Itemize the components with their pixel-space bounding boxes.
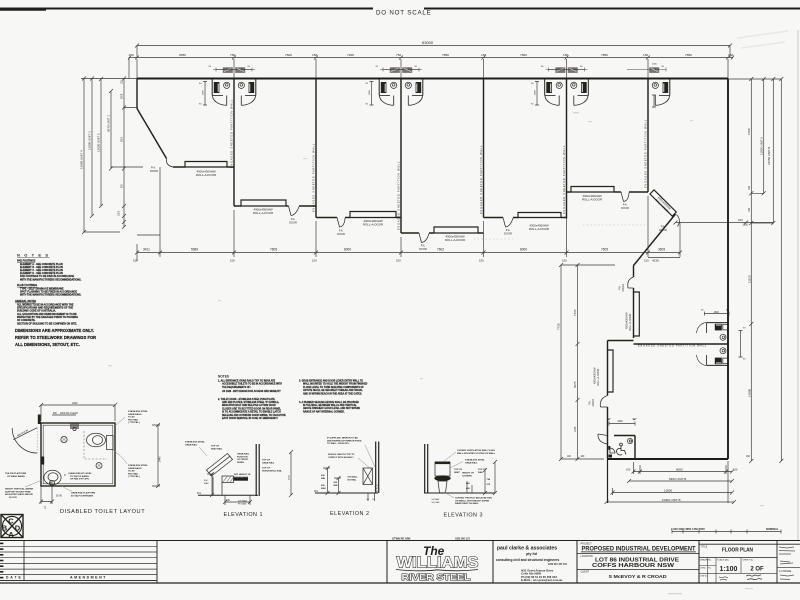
svg-text:DOOR: DOOR — [289, 221, 297, 225]
svg-text:TO RIM OF BASIN: TO RIM OF BASIN — [70, 475, 89, 478]
right wall — [727, 79, 729, 460]
door leaf + swing — [13, 428, 37, 440]
pedestal — [438, 481, 447, 493]
tilted seat — [207, 454, 233, 477]
svg-text:RAISE SEAT ON WALL: RAISE SEAT ON WALL — [455, 502, 479, 505]
svg-text:RANGE OF ANY INTERNAL CORNER.: RANGE OF ANY INTERNAL CORNER. — [303, 410, 345, 413]
svg-text:THE FIN PLATFORM: THE FIN PLATFORM — [5, 472, 26, 475]
svg-text:HORIZONTAL RAIL: HORIZONTAL RAIL — [262, 469, 283, 472]
svg-text:POSITION: POSITION — [237, 456, 248, 458]
unit 4 front wall — [401, 232, 484, 234]
svg-text:GTWN RE ARK: GTWN RE ARK — [392, 537, 411, 541]
svg-text:150: 150 — [129, 53, 134, 57]
svg-text:TOP OF: TOP OF — [454, 469, 463, 471]
svg-text:3411: 3411 — [143, 248, 150, 252]
svg-text:4. A RUBBER SEALING DEVICE SH: 4. A RUBBER SEALING DEVICE SHALL BE PROV… — [299, 401, 359, 404]
svg-text:13900 UNIT 4: 13900 UNIT 4 — [80, 150, 84, 169]
svg-text:7725: 7725 — [573, 309, 577, 316]
svg-text:consulting civil and structura: consulting civil and structural engineer… — [496, 558, 560, 562]
svg-text:ENGAGED SHEETED PARTITION WALL: ENGAGED SHEETED PARTITION WALL — [230, 99, 234, 168]
svg-text:AMENDMENT: AMENDMENT — [70, 576, 107, 580]
svg-text:1800: 1800 — [203, 89, 205, 95]
lower section left wall lower — [607, 341, 609, 396]
svg-text:paul clarke & associates: paul clarke & associates — [497, 545, 557, 551]
svg-text:PANEL: PANEL — [237, 461, 245, 464]
svg-text:12500 UNIT 3: 12500 UNIT 3 — [88, 131, 92, 150]
svg-text:63000: 63000 — [422, 40, 434, 45]
left wall — [136, 79, 138, 109]
svg-text:7725: 7725 — [557, 323, 561, 330]
bottom dims — [223, 495, 252, 505]
svg-text:150: 150 — [479, 259, 484, 263]
svg-text:( TYPICAL ): ( TYPICAL ) — [128, 475, 140, 478]
svg-text:1500: 1500 — [747, 128, 751, 135]
floor waste — [61, 436, 67, 442]
svg-text:GRAB RAILS: GRAB RAILS — [128, 413, 142, 416]
svg-text:150: 150 — [396, 259, 401, 263]
amendment row ticks — [0, 543, 3, 579]
svg-text:SEAT RAIL: SEAT RAIL — [211, 447, 223, 450]
svg-text:S McEVOY & R CROAD: S McEVOY & R CROAD — [609, 574, 668, 579]
svg-text:RV MAX: RV MAX — [238, 502, 247, 505]
svg-text:ABOVE FINISHED FLOOR LEVEL AND: ABOVE FINISHED FLOOR LEVEL AND NOT WITHI… — [303, 407, 360, 410]
svg-text:FFL: FFL — [197, 492, 202, 495]
svg-text:WITH THE MANUFACTURERS RECOMME: WITH THE MANUFACTURERS RECOMMENDATIONS. — [20, 278, 82, 281]
partition wall unit 3/4 — [400, 79, 402, 234]
P.A. door unit 3 — [337, 218, 345, 228]
partition wall unit 1/2 — [233, 79, 235, 207]
roll-a-door recess unit 2 — [241, 200, 286, 206]
svg-text:2400: 2400 — [618, 421, 624, 423]
svg-text:P.A.: P.A. — [623, 203, 628, 207]
lower-left dimension cascade — [559, 263, 615, 461]
bay dimension row — [129, 57, 733, 59]
unit 3 front wall — [316, 217, 401, 219]
svg-text:50 MAX: 50 MAX — [432, 498, 440, 501]
svg-text:570 MAX: 570 MAX — [238, 500, 248, 503]
williams river steel logo box — [387, 541, 493, 584]
svg-text:SCALE (A1): SCALE (A1) — [717, 558, 729, 561]
svg-text:9570 UNIT 1: 9570 UNIT 1 — [107, 115, 111, 132]
svg-text:MAX: MAX — [321, 487, 326, 490]
unit 2 front wall — [234, 205, 316, 207]
toilet cubicle at partition 6/7 (single) — [627, 67, 670, 105]
svg-text:ALL DIMENSIONS, SETOUT, ETC.: ALL DIMENSIONS, SETOUT, ETC. — [15, 342, 80, 347]
svg-text:STAINLESS STEEL: STAINLESS STEEL — [185, 441, 205, 444]
svg-text:ENGAGED SHEETED PARTITION WALL: ENGAGED SHEETED PARTITION WALL — [562, 145, 566, 214]
WC room circle fitting — [627, 438, 632, 443]
svg-text:7605: 7605 — [601, 248, 608, 252]
svg-text:JOB No: JOB No — [700, 575, 708, 577]
svg-text:GRAB RAILS: GRAB RAILS — [128, 467, 142, 470]
svg-text:MIN: MIN — [334, 485, 338, 487]
partition wall unit 2/3 — [315, 79, 317, 218]
splayed corner wall (lower) — [634, 214, 676, 266]
toilet cubicles at partition 1/2 — [212, 67, 256, 105]
svg-text:HEIGHT VERTICAL WATER: HEIGHT VERTICAL WATER — [5, 488, 34, 491]
toilet cubicles at partition 3/4 — [379, 67, 423, 105]
svg-text:6900 UNIT B: 6900 UNIT B — [669, 477, 686, 481]
svg-text:DRAWN: DRAWN — [700, 558, 709, 561]
svg-text:IN THE WALL BETWEEN WALLS AND: IN THE WALL BETWEEN WALLS AND VERTICAL — [303, 404, 357, 407]
svg-text:150: 150 — [312, 259, 317, 263]
cluster side dim (partition 1/2) — [203, 82, 207, 106]
svg-text:DOOR: DOOR — [150, 169, 158, 173]
svg-text:GRAB RAIL: GRAB RAIL — [262, 461, 275, 464]
wheelchair symbol — [617, 443, 627, 455]
svg-text:ROLL-A-DOOR: ROLL-A-DOOR — [629, 313, 632, 331]
svg-text:7850: 7850 — [442, 53, 449, 57]
svg-text:150: 150 — [312, 53, 317, 57]
partition wall lower section — [634, 343, 729, 345]
svg-text:ELEVATION 2: ELEVATION 2 — [330, 511, 369, 517]
svg-text:DO NOT SCALE: DO NOT SCALE — [376, 10, 432, 17]
svg-text:DOOR: DOOR — [504, 232, 512, 236]
svg-text:FLOOR PLAN: FLOOR PLAN — [722, 547, 753, 553]
CAD stamp box bottom-left — [1, 515, 23, 540]
svg-text:N O T E S: N O T E S — [17, 253, 50, 258]
roll-a-door recess unit 6 — [571, 187, 614, 193]
svg-text:1500: 1500 — [119, 210, 121, 216]
4230 sub dimension — [648, 257, 680, 259]
bottom centre notes — [68, 472, 95, 497]
leaders — [444, 452, 456, 461]
svg-text:ACCESSIBLE TOILETS TO BE IN AC: ACCESSIBLE TOILETS TO BE IN ACCORDANCE W… — [222, 383, 282, 386]
svg-text:TOILET SEAT: TOILET SEAT — [234, 476, 249, 479]
svg-text:12000 UNIT 2: 12000 UNIT 2 — [97, 133, 101, 152]
right dimension cascade — [728, 77, 783, 463]
svg-text:WILLIAMS: WILLIAMS — [397, 555, 479, 572]
svg-text:P.A.: P.A. — [151, 166, 156, 170]
svg-text:2 OF: 2 OF — [750, 567, 764, 573]
svg-text:COFFS HARBOUR NSW: COFFS HARBOUR NSW — [592, 563, 675, 569]
bottom wall — [608, 458, 729, 460]
dispenser box — [363, 468, 373, 485]
svg-text:CURVED 'PROFILE' BECAUSE PAN: CURVED 'PROFILE' BECAUSE PAN — [455, 497, 492, 500]
svg-text:INDICATOR BOLT AND RELATED ACT: INDICATOR BOLT AND RELATED ACTION DOOR — [222, 404, 276, 407]
svg-text:8000: 8000 — [344, 248, 351, 252]
svg-text:11800: 11800 — [664, 488, 672, 492]
svg-text:ROLL-A-DOOR: ROLL-A-DOOR — [196, 173, 216, 177]
diagonal roll-a-door unit 7 — [650, 190, 676, 216]
step wall — [608, 340, 634, 342]
roll-a-door recess unit 1 — [185, 162, 227, 168]
roll-a-door recess (vertical, lower) — [608, 350, 614, 392]
smudge top right — [737, 31, 788, 48]
WC room basin — [610, 448, 615, 453]
svg-text:ROLL-A-DOOR: ROLL-A-DOOR — [529, 227, 549, 231]
WC pan — [87, 433, 106, 447]
svg-text:3500: 3500 — [121, 136, 123, 142]
svg-text:1800: 1800 — [535, 89, 537, 95]
svg-text:GRAB PAD PLATFORM: GRAB PAD PLATFORM — [71, 492, 95, 495]
cluster side dim (partition 6/7) — [652, 95, 656, 107]
svg-text:3. GRAB ENTRANCE AND DOOR LEV: 3. GRAB ENTRANCE AND DOOR LEVER ENTRY WA… — [299, 380, 363, 383]
svg-text:NOTES: NOTES — [218, 375, 229, 379]
svg-text:11500 UNIT 6: 11500 UNIT 6 — [759, 137, 763, 155]
svg-text:7850: 7850 — [601, 53, 608, 57]
svg-text:150: 150 — [133, 259, 138, 263]
right dim line — [289, 450, 293, 497]
svg-text:GENERAL NOTES: GENERAL NOTES — [15, 300, 36, 303]
svg-text:1800: 1800 — [369, 89, 371, 95]
svg-text:2440: 2440 — [159, 456, 162, 462]
svg-text:D A T E: D A T E — [6, 576, 22, 580]
svg-text:OF FRONT: OF FRONT — [237, 459, 249, 461]
drawing title box: FLOOR PLAN — [699, 541, 800, 584]
svg-text:150: 150 — [748, 185, 751, 190]
cluster side dim (partition 5/6) — [535, 82, 539, 106]
svg-text:150: 150 — [563, 53, 568, 57]
svg-text:DOOR: DOOR — [337, 232, 345, 236]
svg-text:2508: 2508 — [121, 93, 123, 99]
svg-text:100: 100 — [733, 467, 738, 471]
shower fitting top — [70, 424, 79, 430]
svg-text:CURVED VENTILATION RAIL FLUSH: CURVED VENTILATION RAIL FLUSH — [457, 449, 495, 452]
svg-text:P.A.: P.A. — [291, 217, 296, 221]
svg-text:P.A.: P.A. — [339, 229, 344, 233]
svg-text:FFL: FFL — [314, 490, 319, 493]
svg-text:SECTION OF BUILDING TO BE CONF: SECTION OF BUILDING TO BE CONFINED ON SI… — [17, 322, 77, 325]
svg-text:THE REQUIREMENTS OF:: THE REQUIREMENTS OF: — [222, 387, 251, 389]
sheet top border line — [0, 8, 373, 10]
svg-text:5075: 5075 — [573, 381, 577, 388]
svg-text:E-MAIL : wrs.pcax@aol.com.au: E-MAIL : wrs.pcax@aol.com.au — [521, 578, 563, 582]
svg-text:WHOLE LENGTH TOP TO: WHOLE LENGTH TOP TO — [328, 454, 355, 456]
roll-a-door recess unit 5 — [518, 213, 561, 218]
right side dim — [157, 425, 159, 486]
svg-text:150: 150 — [728, 53, 733, 57]
svg-text:3605: 3605 — [658, 248, 665, 252]
svg-text:13000 UNIT B: 13000 UNIT B — [662, 498, 681, 502]
P.A. door unit 4 — [419, 233, 429, 243]
seat base bar — [234, 477, 249, 480]
svg-text:G: G — [50, 481, 54, 486]
svg-text:ELEVATION 3: ELEVATION 3 — [444, 513, 483, 519]
svg-text:ON WALL: ON WALL — [348, 476, 359, 479]
P.A. door lower wall — [628, 277, 634, 288]
svg-text:ROLL-A-DOOR: ROLL-A-DOOR — [597, 368, 600, 386]
svg-text:AT SELF DISPENSER: AT SELF DISPENSER — [71, 494, 94, 497]
svg-text:6000: 6000 — [676, 467, 683, 471]
svg-text:TOP OF: TOP OF — [211, 446, 220, 448]
svg-text:LOCATION: LOCATION — [581, 555, 593, 558]
svg-text:ROLL-A-DOOR: ROLL-A-DOOR — [363, 223, 383, 227]
svg-text:DOOR: DOOR — [622, 284, 625, 292]
svg-text:1300: 1300 — [714, 311, 720, 314]
svg-text:WITH THE MANUFACTURERS RECOMME: WITH THE MANUFACTURERS RECOMMENDATIONS. — [20, 294, 82, 297]
unit 1 front wall — [173, 166, 234, 168]
unit 6 front wall — [567, 191, 649, 193]
P.A. door unit 5 — [503, 218, 513, 228]
svg-text:A: A — [8, 530, 14, 539]
svg-text:NO RAIL: NO RAIL — [348, 478, 358, 481]
scanned page edge right — [797, 30, 799, 540]
svg-text:PROJECT: PROJECT — [581, 543, 593, 546]
dims — [323, 466, 341, 495]
dims right — [467, 460, 497, 495]
svg-text:GRAB RAIL: GRAB RAIL — [465, 461, 478, 464]
svg-text:D: D — [15, 524, 21, 533]
P.A. door unit 6 — [621, 192, 629, 202]
svg-text:4230: 4230 — [652, 259, 659, 263]
svg-text:1. ALL ENTRANCE GRAB RAILS TY: 1. ALL ENTRANCE GRAB RAILS TYP. TO INSUL… — [218, 380, 276, 383]
svg-text:GRAB RAIL: GRAB RAIL — [185, 443, 198, 446]
office / WC room lower left — [614, 436, 635, 460]
svg-text:7602: 7602 — [437, 248, 444, 252]
svg-text:EASY DOOR REMOVAL IN CASE OF E: EASY DOOR REMOVAL IN CASE OF EMERGENCY. — [222, 417, 278, 420]
svg-text:AS 1428 - DRY DESIGN FOR ACC: AS 1428 - DRY DESIGN FOR ACCESS AND MOBI… — [222, 390, 281, 393]
svg-text:7605: 7605 — [270, 248, 277, 252]
svg-text:AND IS WITHIN REACH IN THE ARE: AND IS WITHIN REACH IN THE AREA AT THE G… — [303, 392, 362, 395]
svg-text:SEAT: SEAT — [454, 471, 460, 474]
overall 63000 dimension — [137, 45, 730, 47]
partition extension stubs to dim row — [129, 58, 728, 79]
svg-text:5689: 5689 — [191, 248, 198, 252]
svg-text:AND END PLATES, STAINLESS STEE: AND END PLATES, STAINLESS STEEL 'D' HAND… — [222, 401, 279, 404]
svg-text:CHKD: CHKD — [700, 567, 707, 569]
faint scan speckles — [108, 112, 764, 594]
svg-text:750: 750 — [230, 53, 235, 57]
P.A. door unit 2 — [289, 206, 300, 216]
svg-text:100: 100 — [626, 467, 631, 471]
svg-text:WALL MOUNTED SYSTEM ON WALL: WALL MOUNTED SYSTEM ON WALL — [457, 452, 496, 455]
lower bottom dimensions — [607, 459, 609, 503]
P.A. door unit 7 (diagonal) — [677, 215, 680, 227]
top dimension — [41, 404, 115, 406]
svg-text:( HAND PAD AT LEVEL: ( HAND PAD AT LEVEL — [68, 472, 92, 475]
svg-text:WALL MOUNTED TO HOLD THE WEIGH: WALL MOUNTED TO HOLD THE WEIGHT FROM FIN… — [303, 383, 368, 386]
svg-text:ENGAGED SHEETED PARTITION WALL: ENGAGED SHEETED PARTITION WALL — [644, 119, 648, 188]
svg-text:ROLL-A-DOOR: ROLL-A-DOOR — [445, 238, 465, 242]
svg-text:ACN 010 447 151: ACN 010 447 151 — [548, 563, 568, 566]
svg-text:7600: 7600 — [520, 53, 527, 57]
svg-text:1975: 1975 — [574, 426, 577, 432]
svg-text:RAIL: RAIL — [478, 471, 484, 474]
grab rail marks left wall — [41, 457, 44, 465]
svg-text:MIN: MIN — [321, 478, 325, 480]
svg-text:OF WASH BASIN: OF WASH BASIN — [7, 475, 25, 478]
svg-text:NOMINAL: NOMINAL — [766, 527, 779, 531]
svg-text:C: C — [8, 517, 14, 526]
WC room dims — [609, 423, 635, 425]
top wall of building — [137, 78, 728, 80]
svg-text:ASTUTE SHALL BE SECURELY THREA: ASTUTE SHALL BE SECURELY THREAD AND VISU… — [303, 389, 363, 392]
roll-a-door recess unit 3 — [350, 212, 396, 218]
svg-text:RIVER STEEL: RIVER STEEL — [402, 573, 471, 582]
svg-text:REFER TO STEELWORK DRAWINGS FO: REFER TO STEELWORK DRAWINGS FOR — [15, 335, 96, 340]
svg-text:2000: 2000 — [652, 64, 658, 66]
svg-text:2440: 2440 — [72, 402, 78, 405]
partition wall unit 6/7 — [647, 79, 649, 193]
svg-text:FLOOR: FLOOR — [9, 497, 17, 499]
svg-text:STAINLESS STEEL: STAINLESS STEEL — [128, 464, 148, 467]
svg-text:ON SMALL WITH RELIEF SUPER: ON SMALL WITH RELIEF SUPER — [455, 499, 490, 502]
svg-text:OF PAN (TYP 3FF): OF PAN (TYP 3FF) — [70, 478, 89, 481]
leader notes right top — [115, 417, 125, 426]
svg-text:7600: 7600 — [285, 53, 292, 57]
svg-text:DIMENSIONS ARE APPROXIMATE ONL: DIMENSIONS ARE APPROXIMATE ONLY. — [15, 328, 94, 333]
svg-text:IF SUPPLIED, MIRROR TO BE: IF SUPPLIED, MIRROR TO BE — [327, 438, 358, 440]
amendment table — [0, 541, 157, 584]
engineer box: paul clarke & associates — [496, 541, 577, 584]
svg-text:8000: 8000 — [520, 248, 527, 252]
svg-text:±: ± — [64, 473, 66, 477]
svg-text:9050: 9050 — [179, 53, 186, 57]
svg-text:HEIGHT OF: HEIGHT OF — [462, 473, 475, 475]
left outside notes — [5, 472, 34, 499]
svg-text:TO WALL, FROM FFL.: TO WALL, FROM FFL. — [327, 442, 350, 445]
svg-text:150: 150 — [230, 259, 235, 263]
svg-text:1300: 1300 — [743, 224, 749, 227]
svg-text:150: 150 — [748, 207, 751, 212]
svg-text:DISABLED TOILET LAYOUT: DISABLED TOILET LAYOUT — [60, 509, 145, 515]
svg-text:2. TOILET DOOR - STAINLESS: 2. TOILET DOOR - STAINLESS STEEL PUSH PL… — [218, 398, 275, 401]
svg-text:ENGAGED SHEETED PARTITION WALL: ENGAGED SHEETED PARTITION WALL — [312, 143, 316, 212]
P.A. door left wall — [600, 396, 607, 408]
svg-text:ELEVATION 1: ELEVATION 1 — [224, 512, 263, 518]
svg-text:7850: 7850 — [685, 53, 692, 57]
svg-text:IS TO ACCOMMODATE A DETAIL TO: IS TO ACCOMMODATE A DETAIL TO ENABLE LAT… — [222, 411, 281, 414]
svg-text:RELEASE AND OUTWARD DOOR SWING: RELEASE AND OUTWARD DOOR SWING, TO FACIL… — [222, 414, 286, 417]
svg-text:STAINLESS STEEL: STAINLESS STEEL — [128, 410, 148, 413]
svg-text:DOOR: DOOR — [419, 247, 427, 251]
svg-text:TO AS: TO AS — [128, 470, 135, 473]
roll-a-door recess unit 4 — [434, 227, 478, 233]
right corner boxes — [777, 566, 800, 568]
partition wall unit 4/5 — [483, 79, 485, 218]
svg-text:SUPPORT MOUNT FREE: SUPPORT MOUNT FREE — [5, 491, 31, 493]
wall panel — [255, 444, 257, 496]
svg-text:750: 750 — [396, 53, 401, 57]
svg-text:11150: 11150 — [747, 275, 751, 283]
splayed corner wall — [137, 109, 167, 159]
svg-text:STAINLESS STEEL: STAINLESS STEEL — [465, 459, 485, 462]
svg-text:150: 150 — [644, 259, 649, 263]
svg-text:150: 150 — [562, 259, 567, 263]
unit 5 front wall — [484, 217, 567, 219]
seat — [434, 475, 450, 481]
svg-text:1100: 1100 — [289, 475, 291, 480]
svg-text:16800: 16800 — [747, 389, 751, 397]
svg-text:COMPLY WITH AS1428.1: COMPLY WITH AS1428.1 — [328, 456, 354, 459]
svg-text:ROLL-A-DOOR: ROLL-A-DOOR — [582, 198, 602, 202]
stray dimension row above titleblock — [672, 531, 781, 533]
svg-text:( TYPICAL ): ( TYPICAL ) — [128, 421, 140, 424]
svg-text:TOP OF: TOP OF — [262, 468, 271, 470]
small circle lower — [96, 463, 102, 469]
svg-text:TITLE: TITLE — [701, 546, 708, 548]
svg-text:ADJUSTED SHELF ABOVE: ADJUSTED SHELF ABOVE — [5, 493, 33, 496]
bottom dimension line of top band — [137, 252, 680, 254]
cistern — [435, 462, 450, 476]
svg-text:P.A.: P.A. — [421, 244, 426, 248]
svg-text:pty ltd: pty ltd — [526, 552, 537, 556]
lower section left wall upper — [633, 266, 635, 278]
floor line — [198, 494, 258, 496]
roll-a-door recess (vertical, upper) — [634, 292, 640, 336]
svg-text:150: 150 — [643, 53, 648, 57]
svg-text:TOP OF: TOP OF — [262, 460, 271, 462]
svg-text:24650 UNIT B: 24650 UNIT B — [767, 147, 771, 165]
room walls — [41, 423, 115, 486]
svg-text:ENGAGED SHEETED PARTITION WALL: ENGAGED SHEETED PARTITION WALL — [479, 145, 483, 214]
svg-text:ENGAGED SHEETED PARTITION WALL: ENGAGED SHEETED PARTITION WALL — [397, 161, 401, 230]
svg-text:CISTERN: CISTERN — [462, 475, 472, 477]
svg-text:DOOR: DOOR — [621, 206, 629, 210]
partition wall unit 5/6 — [566, 79, 568, 219]
left dim — [207, 472, 214, 497]
